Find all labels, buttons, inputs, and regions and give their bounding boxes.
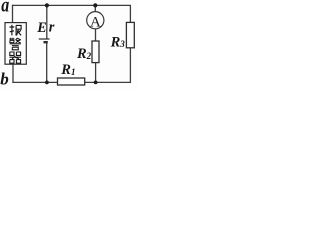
wire R2 to bottom	[95, 62, 97, 82]
wire ammeter to R2	[95, 29, 97, 42]
ammeter A	[87, 12, 104, 29]
battery branch wire upper	[46, 5, 48, 39]
battery E,r short thick plate	[44, 41, 48, 43]
alarm box (bao jing qi)	[5, 23, 26, 65]
svg-text:E: E	[36, 20, 46, 36]
ammeter branch stub from top wire	[94, 5, 96, 12]
svg-text:a: a	[1, 0, 9, 16]
node junction dot bottom battery	[45, 81, 49, 85]
resistor R1 body	[58, 78, 85, 85]
battery E,r long plate	[39, 38, 50, 40]
wire bottom horizontal	[12, 81, 131, 83]
resistor R3 body	[126, 22, 134, 47]
wire left vertical upper (node a to alarm box)	[12, 5, 14, 23]
wire left vertical lower (alarm box to node b)	[12, 64, 14, 83]
hanzi qi (device) drawn strokes	[9, 52, 21, 63]
hanzi jing (alert) drawn strokes	[9, 38, 21, 50]
node junction dot top battery	[45, 3, 49, 7]
wire right vertical	[129, 5, 131, 82]
wire top horizontal	[12, 4, 131, 6]
svg-text:b: b	[0, 70, 9, 89]
node junction dot bottom R2	[94, 81, 98, 85]
svg-text:A: A	[90, 15, 101, 31]
svg-text:r: r	[49, 20, 55, 36]
hanzi bao (report) drawn strokes	[10, 25, 22, 36]
battery branch wire lower	[46, 42, 48, 82]
resistor R2 body	[92, 41, 99, 63]
node junction dot top ammeter	[93, 3, 97, 7]
